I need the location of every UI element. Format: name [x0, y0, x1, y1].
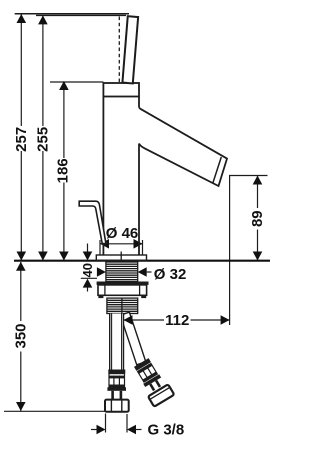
- svg-text:40: 40: [80, 263, 95, 277]
- svg-text:G 3/8: G 3/8: [148, 422, 185, 439]
- diagonal hose neck: [149, 383, 155, 391]
- spout aerator band: [213, 157, 222, 183]
- dimension 186 arrows: [59, 81, 69, 261]
- extension line for 186 (cap top level): [50, 81, 103, 83]
- dimension 257 line: [20, 14, 22, 261]
- bottom extension line (hose end level): [4, 410, 106, 412]
- spout outline: [139, 107, 227, 186]
- dimension 89 arrows: [253, 176, 263, 261]
- diagonal supply hose tube: [120, 312, 146, 365]
- dimension O32 arrows: [97, 267, 147, 277]
- dimension 350 arrows: [16, 262, 26, 411]
- mounting washer: [97, 282, 149, 285]
- vertical supply hose tube: [110, 314, 124, 371]
- shank lower ribbed section: [107, 298, 138, 313]
- svg-text:350: 350: [12, 323, 29, 348]
- handle pin (tilted): [122, 16, 138, 83]
- dimension 255 line: [42, 15, 44, 261]
- vertical hose neck: [111, 391, 122, 400]
- G 3/8 extension lines: [106, 414, 128, 433]
- dimension 40 lower extension line: [81, 277, 97, 279]
- vertical extension line from spout tip down to 112: [229, 176, 231, 326]
- G 3/8 arrows: [97, 425, 137, 435]
- diagonal hose end fitting: [131, 356, 174, 406]
- dimension 40 bottom arrow: [83, 279, 93, 288]
- diagonal hose crimp ring 1: [134, 358, 151, 371]
- vertical hose bellows: [109, 374, 125, 388]
- svg-text:Ø 46: Ø 46: [106, 225, 139, 242]
- dimension 89 line: [257, 176, 259, 262]
- extension line from spout tip (89 level): [229, 175, 268, 177]
- O46 extension lines: [100, 240, 143, 255]
- dimension 350 line: [20, 262, 22, 411]
- vertical hose hex nut: [105, 400, 129, 412]
- svg-text:Ø 32: Ø 32: [154, 266, 187, 283]
- svg-text:89: 89: [249, 210, 266, 227]
- faucet body left edge: [102, 97, 104, 256]
- vertical hose crimp ring 2: [107, 387, 126, 391]
- deck / countertop line: [14, 260, 270, 262]
- dimension 257 arrows: [17, 14, 27, 261]
- faucet cap (top of body): [103, 83, 139, 97]
- faucet body right edge upper: [138, 97, 140, 108]
- faucet base plate: [96, 255, 146, 260]
- diagonal hose hex nut: [148, 384, 174, 406]
- mounting nut: [98, 285, 147, 298]
- dimension 112 arrows: [124, 315, 230, 325]
- vertical hose crimp ring 1: [108, 370, 125, 374]
- faucet base centre tick: [120, 252, 122, 261]
- top extension line (257 level): [15, 13, 129, 15]
- dimension 186 line: [63, 82, 65, 261]
- svg-text:112: 112: [165, 312, 189, 329]
- dimension 112 line: [124, 319, 230, 321]
- dimension O46 line and arrows: [100, 243, 143, 245]
- diagonal hose crimp ring 2: [143, 374, 161, 387]
- diagonal hose bellows: [138, 363, 158, 382]
- pop-up rod lever: [79, 201, 106, 243]
- faucet body right edge lower: [138, 144, 140, 256]
- dimension 255 arrows: [38, 15, 48, 260]
- top extension line (255 level): [36, 14, 126, 16]
- handle pin dashed (vertical position): [119, 17, 129, 84]
- threaded shank (upper thread): [106, 262, 138, 282]
- svg-text:186: 186: [55, 158, 72, 183]
- dimension 40 top arrow: [87, 244, 89, 254]
- svg-text:255: 255: [34, 127, 51, 152]
- svg-text:257: 257: [13, 127, 30, 152]
